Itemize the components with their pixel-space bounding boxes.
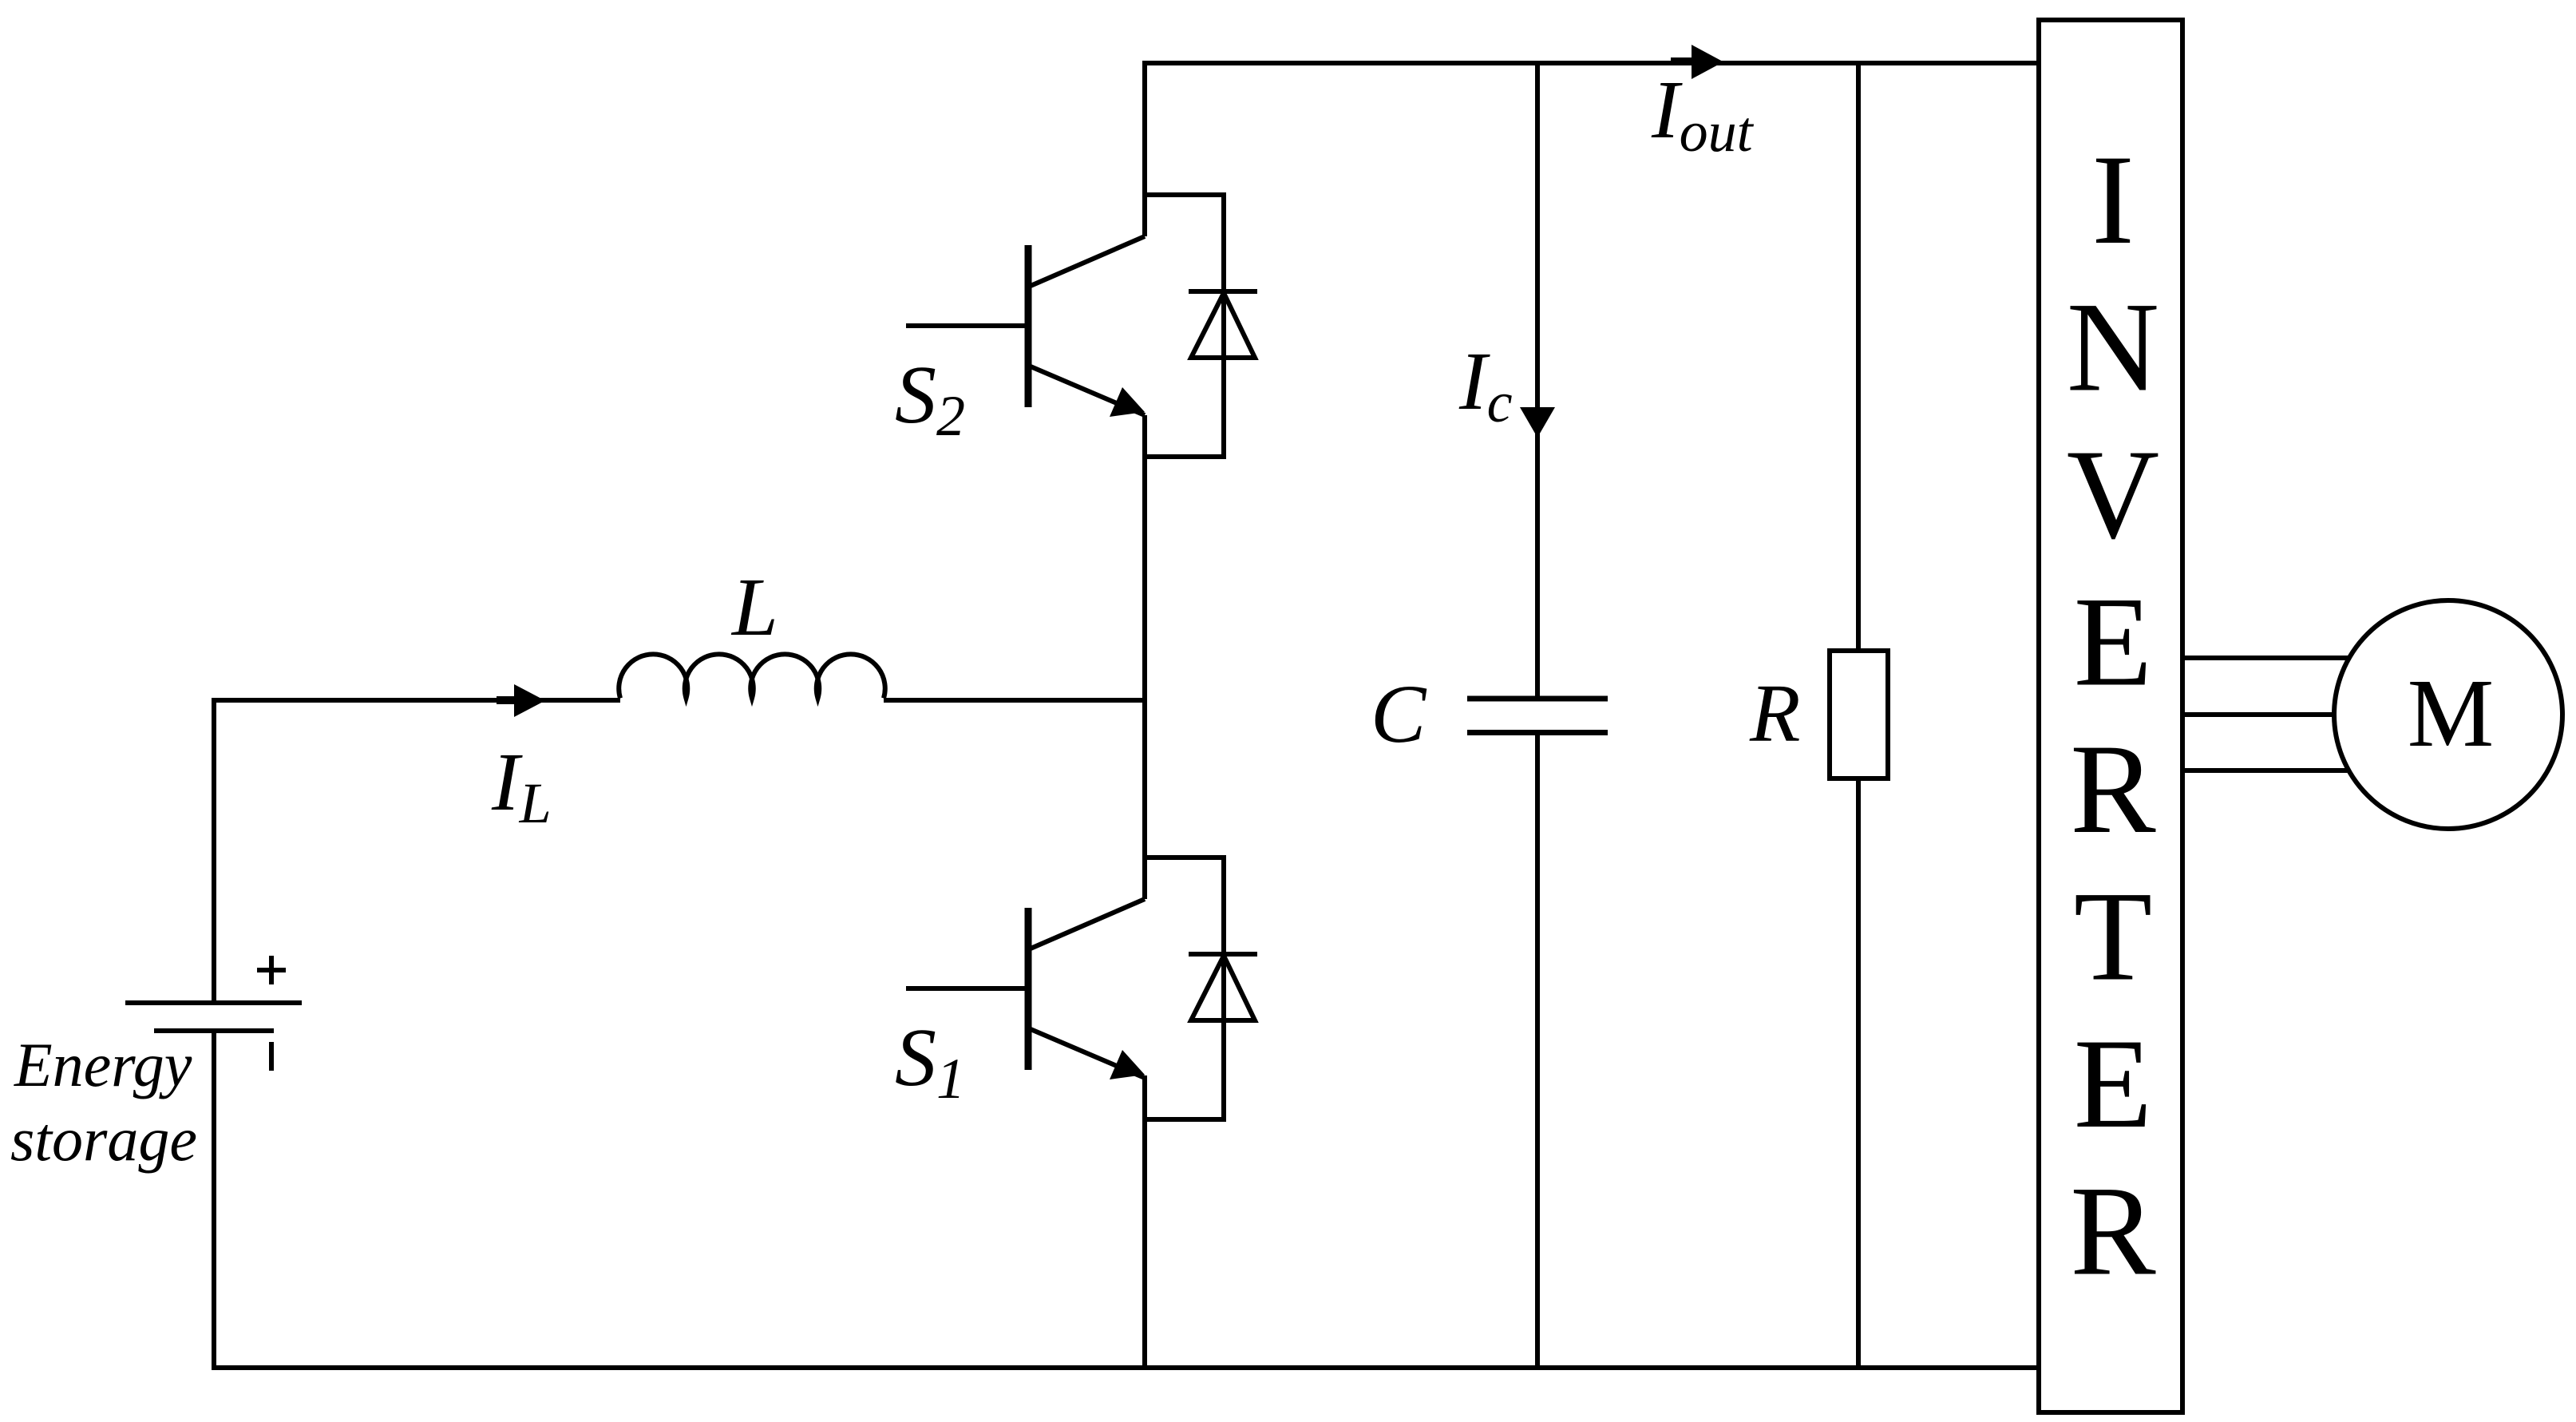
svg-text:E: E xyxy=(2074,1012,2152,1155)
svg-text:V: V xyxy=(2067,423,2159,565)
svg-text:storage: storage xyxy=(10,1104,197,1174)
svg-text:R: R xyxy=(1749,667,1801,759)
svg-text:T: T xyxy=(2074,865,2152,1008)
svg-text:L: L xyxy=(730,561,778,653)
svg-text:R: R xyxy=(2070,718,2156,860)
svg-text:I: I xyxy=(2091,129,2135,271)
svg-text:N: N xyxy=(2067,276,2159,418)
svg-text:E: E xyxy=(2074,571,2152,713)
svg-text:R: R xyxy=(2070,1160,2156,1302)
svg-text:Energy: Energy xyxy=(14,1030,192,1099)
svg-text:C: C xyxy=(1371,668,1427,760)
svg-text:M: M xyxy=(2408,660,2494,767)
